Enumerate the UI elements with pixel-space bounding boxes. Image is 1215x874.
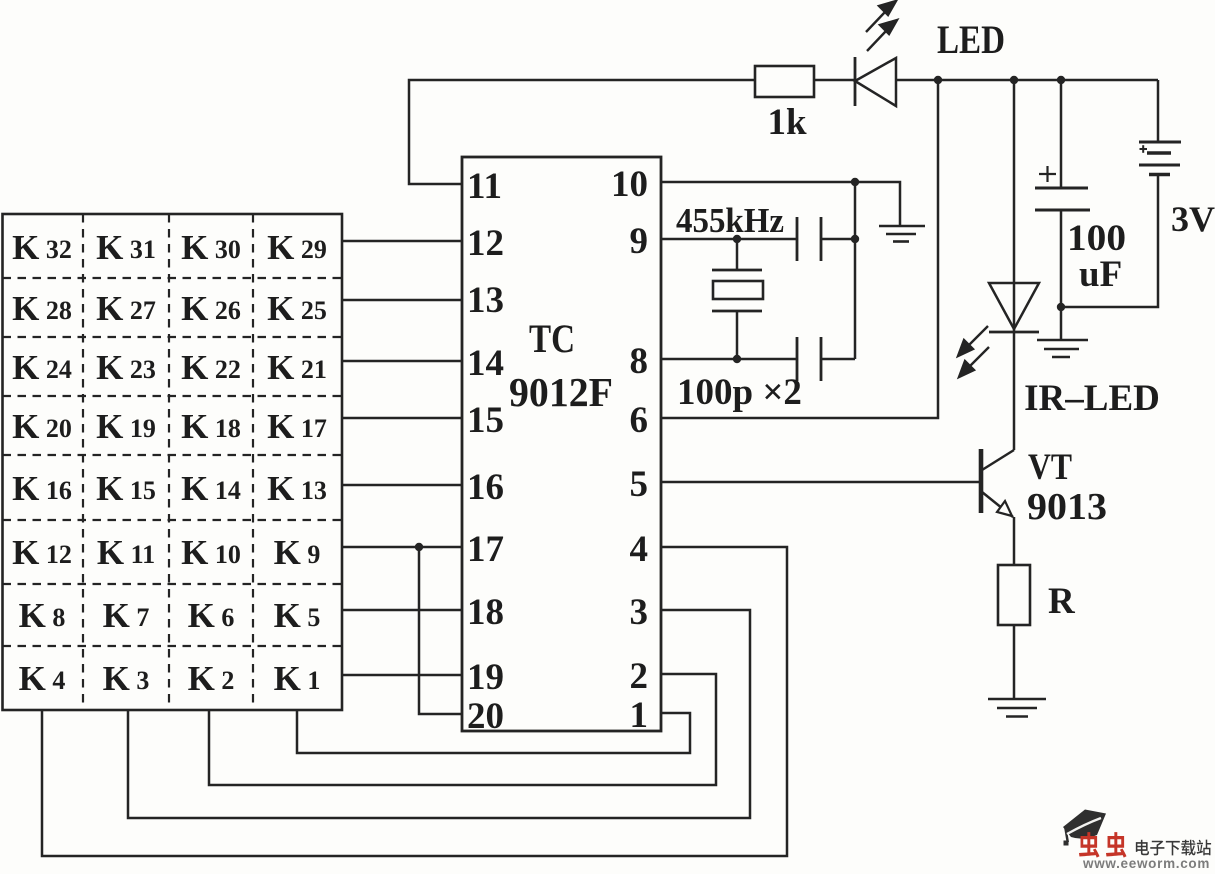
svg-text:3V: 3V: [1171, 199, 1215, 239]
junction dot pin9-resonator: [733, 235, 741, 243]
battery B1 plates: [1139, 142, 1181, 175]
svg-text:R: R: [1048, 581, 1076, 622]
junction dot VDD branch: [934, 76, 942, 84]
wire pin 3 loop to column K3: [128, 610, 750, 818]
wire matrix row to pin 16: [342, 484, 463, 487]
keyboard matrix column dividers: [83, 214, 253, 710]
watermark red text chongchong: [1079, 832, 1127, 858]
IR-LED emission arrows: [958, 326, 989, 377]
svg-text:5: 5: [630, 464, 649, 505]
svg-text:20: 20: [467, 696, 504, 737]
wire matrix row to pin 19: [342, 674, 463, 677]
wire matrix row to pin 15: [342, 417, 463, 420]
label 100 uF: [1067, 218, 1126, 295]
capacitor C2 100p plates: [797, 337, 821, 381]
svg-text:100p ×2: 100p ×2: [677, 372, 802, 413]
svg-text:VT: VT: [1028, 447, 1072, 488]
wire pin 9 to capacitor: [661, 238, 797, 241]
svg-text:14: 14: [467, 343, 504, 384]
key labels K1-K32: [12, 228, 327, 698]
wire emitter to resistor: [1013, 517, 1016, 565]
wire resonator bottom stub: [736, 311, 739, 359]
wire matrix row to pin 13: [342, 299, 463, 302]
wire pin 5 to transistor base: [661, 481, 980, 484]
svg-text:6: 6: [630, 400, 649, 441]
junction dot capacitor branch: [1057, 76, 1065, 84]
capacitor C3 100uF plates: [1035, 188, 1090, 210]
IC left pin numbers 11-20: [467, 166, 504, 737]
wire pin 10 to ground: [661, 182, 900, 225]
junction dot on pin 17 wire: [415, 543, 423, 551]
wire pin 6 to VDD rail: [661, 80, 938, 418]
svg-text:TC: TC: [529, 316, 575, 361]
IC right pin numbers 10-1: [611, 164, 648, 736]
svg-text:9: 9: [630, 221, 649, 262]
resistor R1 1k body: [755, 66, 814, 97]
wire rail to battery: [1157, 80, 1160, 141]
svg-text:11: 11: [467, 166, 502, 207]
watermark graduation cap logo: [1063, 810, 1106, 846]
junction dot battery-cap ground node: [1057, 303, 1065, 311]
battery plus sign: [1140, 145, 1148, 153]
wire node to ground: [1060, 307, 1063, 339]
wire rail to capacitor C3: [1060, 80, 1063, 188]
wire rail down to IR-LED: [1013, 80, 1016, 332]
ground symbol emitter resistor: [988, 699, 1046, 717]
ground symbol pin 10: [879, 226, 925, 242]
junction dot bus-C1: [851, 235, 859, 243]
LED D1 triangle: [855, 58, 896, 106]
wire pin17-junction down to pin 20: [419, 547, 463, 714]
transistor collector lead: [982, 450, 1014, 470]
wire battery down and left to node: [1061, 175, 1158, 307]
capacitor plus sign: [1039, 166, 1056, 182]
wire C1 to vertical bus: [821, 238, 855, 241]
svg-text:9013: 9013: [1027, 486, 1107, 528]
svg-text:17: 17: [467, 529, 504, 570]
svg-text:9012F: 9012F: [509, 369, 613, 415]
wire resistor to LED: [814, 79, 855, 82]
svg-text:IR–LED: IR–LED: [1024, 378, 1160, 419]
watermark text dianzi xiazaizhan: [1136, 840, 1211, 856]
svg-text:uF: uF: [1079, 254, 1122, 295]
wire pin 11 up-left to top rail: [409, 80, 755, 184]
svg-text:18: 18: [467, 592, 504, 633]
wire resistor to ground: [1013, 625, 1016, 699]
wire IR-LED cathode to collector: [1013, 332, 1016, 450]
wire pin 8 to capacitor: [661, 358, 797, 361]
wire resonator top stub: [736, 239, 739, 270]
svg-text:19: 19: [467, 657, 504, 698]
wire matrix row to pin 18: [342, 609, 463, 612]
junction dot pin10 wire: [851, 178, 859, 186]
svg-text:15: 15: [467, 400, 504, 441]
wire capacitor to ground node: [1060, 210, 1063, 307]
wire matrix row to pin 17: [342, 546, 463, 549]
svg-text:www.eeworm.com: www.eeworm.com: [1082, 856, 1210, 869]
resistor R2 body: [998, 565, 1030, 625]
svg-text:12: 12: [467, 223, 504, 264]
wire pin 2 loop to column K2: [209, 674, 716, 785]
wire LED to battery top rail: [896, 79, 1158, 82]
svg-text:1k: 1k: [767, 102, 807, 143]
svg-text:3: 3: [630, 592, 649, 633]
svg-text:16: 16: [467, 467, 504, 508]
transistor emitter arrowhead: [997, 501, 1012, 516]
svg-text:13: 13: [467, 280, 504, 321]
LED D1 cathode bar: [854, 57, 857, 106]
IC U1 TC9012F body: [462, 157, 661, 731]
svg-text:8: 8: [630, 341, 649, 382]
keyboard matrix row dividers: [3, 278, 343, 646]
svg-text:1: 1: [630, 695, 649, 736]
transistor emitter lead: [982, 492, 1013, 517]
svg-text:2: 2: [630, 656, 649, 697]
svg-text:10: 10: [611, 164, 648, 205]
LED emission arrows: [866, 1, 897, 51]
wire matrix row to pin 14: [342, 360, 463, 363]
transistor Q1 base bar: [979, 449, 984, 513]
IR-LED D2 cathode bar: [989, 331, 1039, 334]
junction dot pin8-resonator: [733, 355, 741, 363]
ground symbol battery: [1037, 340, 1088, 357]
svg-text:LED: LED: [937, 17, 1005, 62]
IR-LED D2 triangle: [989, 283, 1039, 329]
capacitor C1 100p plates: [797, 217, 821, 261]
wire C2 to vertical bus: [821, 358, 855, 361]
vertical bus pin10 to C2: [854, 182, 857, 359]
junction dot IR-LED branch: [1010, 76, 1018, 84]
svg-text:4: 4: [630, 529, 649, 570]
keyboard matrix outer border: [3, 214, 343, 710]
wire pin 1 loop to column K1: [297, 710, 690, 753]
wire pin 4 loop to column K4: [42, 547, 787, 856]
wire matrix row to pin 12: [342, 240, 463, 243]
svg-text:100: 100: [1067, 218, 1126, 259]
svg-text:455kHz: 455kHz: [676, 201, 784, 240]
ceramic resonator X1 455kHz: [712, 270, 763, 311]
